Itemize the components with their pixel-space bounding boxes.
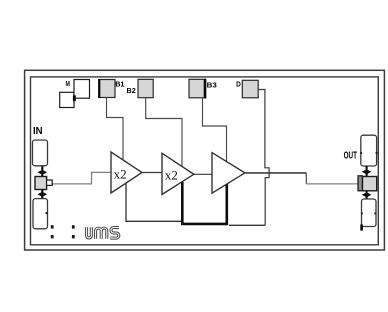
logo colon 2 bbox=[72, 225, 75, 238]
svg-text:x2: x2 bbox=[165, 167, 178, 182]
op-amp A3 bbox=[212, 153, 245, 194]
letter m bbox=[96, 228, 107, 239]
letter u bbox=[87, 227, 92, 238]
pad D bbox=[242, 80, 258, 98]
op-amp A1 bbox=[111, 152, 142, 193]
loop3 thin (under amp3 to D line) bbox=[229, 224, 265, 226]
pad B3 thick right bar bbox=[204, 79, 207, 99]
OUT via bowtie bottom bbox=[362, 191, 372, 199]
svg-text:B3: B3 bbox=[207, 80, 217, 89]
pad B3 bbox=[189, 79, 206, 98]
chip inner border bbox=[31, 77, 379, 245]
pad B2 bbox=[138, 79, 153, 97]
loop1 thin (under amp1-amp2) bbox=[126, 183, 182, 221]
svg-text:M: M bbox=[66, 79, 70, 88]
svg-text:IN: IN bbox=[33, 126, 43, 137]
wire amp2 to amp3 bbox=[194, 173, 212, 175]
wire amp3 output bbox=[245, 172, 306, 174]
pad B1 thick left bar bbox=[98, 79, 100, 98]
OUT RF pad bbox=[363, 177, 377, 191]
IN stub edge tick bbox=[46, 212, 48, 214]
IN series stub (top rounded rect) bbox=[33, 140, 48, 166]
wire B2 to amp2 bbox=[146, 98, 182, 167]
logo ums letters bbox=[87, 227, 119, 238]
IN pad feed square bbox=[47, 180, 53, 185]
svg-text:B1: B1 bbox=[115, 80, 124, 89]
OUT series stub (top rounded rect) bbox=[361, 135, 377, 166]
wire B1 to amp1 bbox=[107, 98, 124, 162]
svg-text:x2: x2 bbox=[114, 166, 127, 181]
letter s bbox=[110, 228, 119, 239]
IN shunt stub (bottom rounded rect) bbox=[33, 199, 48, 229]
wire D down with crossover jog bbox=[258, 90, 269, 226]
svg-text:B2: B2 bbox=[127, 86, 136, 95]
pad B1 bbox=[99, 80, 115, 98]
IN via bowtie top bbox=[38, 167, 48, 178]
OUT stub edge ticks bbox=[360, 152, 362, 154]
OUT stub edge ticks bbox=[361, 212, 363, 214]
wire IN to amp1 bbox=[52, 172, 111, 184]
OUT via bowtie top bbox=[362, 166, 372, 177]
output step down bbox=[305, 173, 307, 184]
wire to OUT pad bbox=[306, 183, 358, 185]
logo colon 1 bbox=[51, 225, 54, 238]
pad M bbox=[74, 80, 90, 99]
chip outer border bbox=[25, 70, 385, 250]
wire amp1 to amp2 bbox=[142, 172, 162, 174]
IN RF pad bbox=[35, 177, 47, 190]
op-amp A2 bbox=[162, 153, 194, 194]
IN via bowtie bottom bbox=[38, 190, 48, 199]
wire B3 to amp3 bbox=[203, 98, 227, 163]
OUT shunt stub (bottom rounded rect) bbox=[362, 199, 377, 227]
svg-text:D: D bbox=[236, 79, 241, 88]
svg-text:OUT: OUT bbox=[344, 151, 358, 162]
pad M aux square bbox=[60, 92, 74, 107]
loop2 thick (under amp2-amp3) bbox=[182, 182, 227, 224]
OUT pad dark feed bar bbox=[358, 176, 363, 191]
M pad connector bbox=[73, 95, 76, 101]
OUT ground stub bbox=[360, 224, 363, 230]
